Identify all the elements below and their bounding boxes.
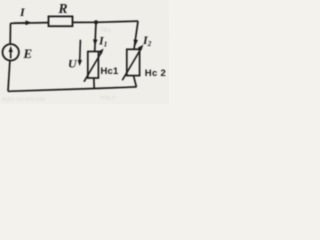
node A junction dot <box>94 20 98 24</box>
svg-text:Нс1: Нс1 <box>101 66 120 77</box>
wire: top left horizontal (corner to resistor) <box>11 22 49 25</box>
svg-text:R: R <box>58 1 68 16</box>
wire: bottom horizontal <box>8 87 137 91</box>
resistor R <box>49 16 73 26</box>
nonlinear element Nc1 diagonal arrow <box>84 53 101 82</box>
wire: left vertical lower (source to bottom corner) <box>8 61 10 92</box>
source E internal arrow <box>10 50 12 59</box>
scan bleed-through smudges (decorative) <box>2 28 116 103</box>
nonlinear element Nc2 box <box>127 49 140 75</box>
wire: branch 1 vertical lower (NE1 to bottom wire) <box>93 78 95 89</box>
arrow I2 <box>133 40 138 46</box>
svg-text:вокл пл нте оте: вокл пл нте оте <box>2 97 46 103</box>
svg-text:E: E <box>23 46 33 61</box>
wire: branch 2 vertical lower (NE2 to bottom wire) <box>134 76 137 87</box>
arrow I on top wire <box>14 22 28 24</box>
nonlinear element Nc1 box <box>88 52 99 79</box>
svg-text:U: U <box>68 57 78 71</box>
wire: branch 2 vertical upper (corner to NE2) <box>134 21 138 49</box>
wire: left vertical upper (corner to source) <box>9 23 11 44</box>
arrow I1 <box>93 39 98 45</box>
wire: branch 1 vertical upper (node A to NE1) <box>95 22 96 51</box>
wire: top right (node A to right corner) <box>96 21 138 22</box>
svg-text:2: 2 <box>147 40 152 48</box>
svg-text:нед о: нед о <box>100 95 116 101</box>
svg-text:1: 1 <box>104 41 108 49</box>
source E circle <box>3 44 19 60</box>
wire: top middle (resistor to node A) <box>73 21 97 23</box>
voltage arrow U <box>79 40 82 62</box>
nonlinear element Nc2 diagonal arrow <box>122 49 141 80</box>
svg-text:Нс 2: Нс 2 <box>145 68 166 79</box>
